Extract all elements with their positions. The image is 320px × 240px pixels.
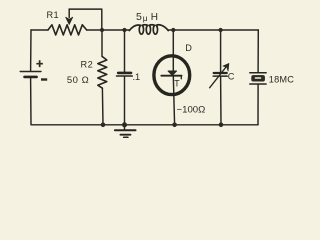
svg-text:μ: μ	[143, 13, 148, 23]
wire R2 down to bottom node	[101, 88, 104, 125]
resistor R2	[98, 57, 107, 89]
variable capacitor arrow	[210, 67, 227, 88]
crystal wire bottom	[257, 85, 259, 125]
junction node D top	[219, 28, 223, 32]
battery B1 positive plate	[20, 71, 41, 73]
svg-text:C: C	[228, 72, 235, 82]
wire inductor to node C	[168, 29, 173, 31]
svg-text:18MC: 18MC	[269, 74, 294, 84]
capacitor .1 top plate	[118, 72, 131, 75]
wire node B to inductor	[125, 29, 130, 31]
crystal bottom plate	[250, 83, 266, 85]
wire top-left from corner to R1	[31, 29, 48, 31]
svg-text:50 Ω: 50 Ω	[67, 75, 89, 86]
battery wire down to bottom-left corner	[31, 78, 103, 125]
ground bar 3	[124, 136, 128, 138]
wire node A down to R2	[101, 30, 103, 57]
bottom wire segments	[103, 124, 258, 126]
variable capacitor C wire bottom	[220, 77, 222, 125]
svg-text:5: 5	[136, 11, 142, 23]
junction bottom R2	[101, 123, 106, 128]
variable capacitor C wire top	[220, 30, 222, 72]
ground bar 2	[120, 134, 130, 136]
paper background	[0, 0, 312, 138]
ground stub	[124, 125, 126, 130]
junction node B top	[122, 28, 126, 32]
crystal body	[252, 75, 265, 81]
wire top from node A to node B	[102, 29, 125, 31]
svg-text:R1: R1	[47, 10, 60, 20]
wire R1 right end to node A	[87, 29, 102, 31]
capacitor .1 wire bottom	[124, 77, 126, 125]
crystal top plate	[250, 72, 266, 74]
resistor R1	[48, 25, 87, 35]
wire top node D to top-right corner	[221, 29, 259, 31]
capacitor .1 wire top	[124, 30, 126, 72]
wiper loop wire to right end	[69, 9, 102, 30]
battery wire from top-left corner down	[30, 30, 32, 71]
variable capacitor C top plate	[214, 72, 227, 74]
battery plus	[36, 60, 43, 67]
junction node C top	[171, 28, 175, 32]
inductor L1 5uH coil	[129, 25, 168, 34]
tunnel diode branch wire top	[172, 30, 174, 71]
ground bar 1	[115, 129, 136, 131]
junction bottom ground	[122, 122, 127, 127]
cathode bar tick	[180, 76, 182, 79]
capacitor .1 bottom plate	[117, 75, 133, 77]
svg-text:R2: R2	[81, 60, 94, 70]
tunnel diode D triangle	[168, 71, 177, 75]
svg-text:D: D	[185, 43, 192, 53]
battery minus	[41, 78, 47, 80]
junction bottom varcap	[219, 123, 224, 128]
tunnel diode branch wire bottom	[173, 76, 174, 125]
wire top node C to node D	[173, 29, 220, 31]
junction node A top	[100, 28, 104, 32]
tunnel diode circle	[154, 56, 190, 95]
svg-text:−100Ω: −100Ω	[177, 104, 206, 115]
tunnel diode cathode bar	[161, 75, 181, 77]
variable capacitor C bottom plate	[213, 75, 227, 77]
svg-text:T: T	[174, 79, 180, 89]
svg-text:.1: .1	[133, 72, 141, 82]
R1 wiper arrow	[68, 9, 70, 17]
battery B1 negative plate	[25, 76, 37, 79]
svg-text:H: H	[151, 12, 158, 23]
crystal wire top right corner down	[257, 30, 259, 72]
junction bottom diode	[172, 123, 177, 128]
